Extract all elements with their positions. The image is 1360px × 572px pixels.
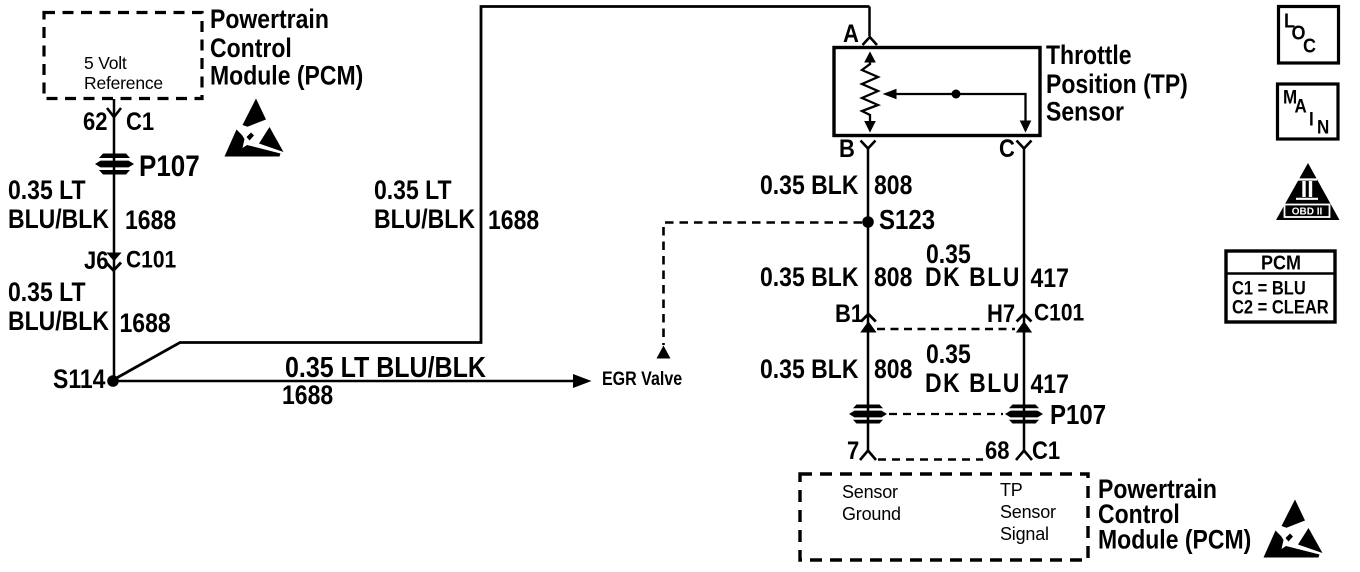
svg-text:OBD II: OBD II [1292,207,1323,218]
